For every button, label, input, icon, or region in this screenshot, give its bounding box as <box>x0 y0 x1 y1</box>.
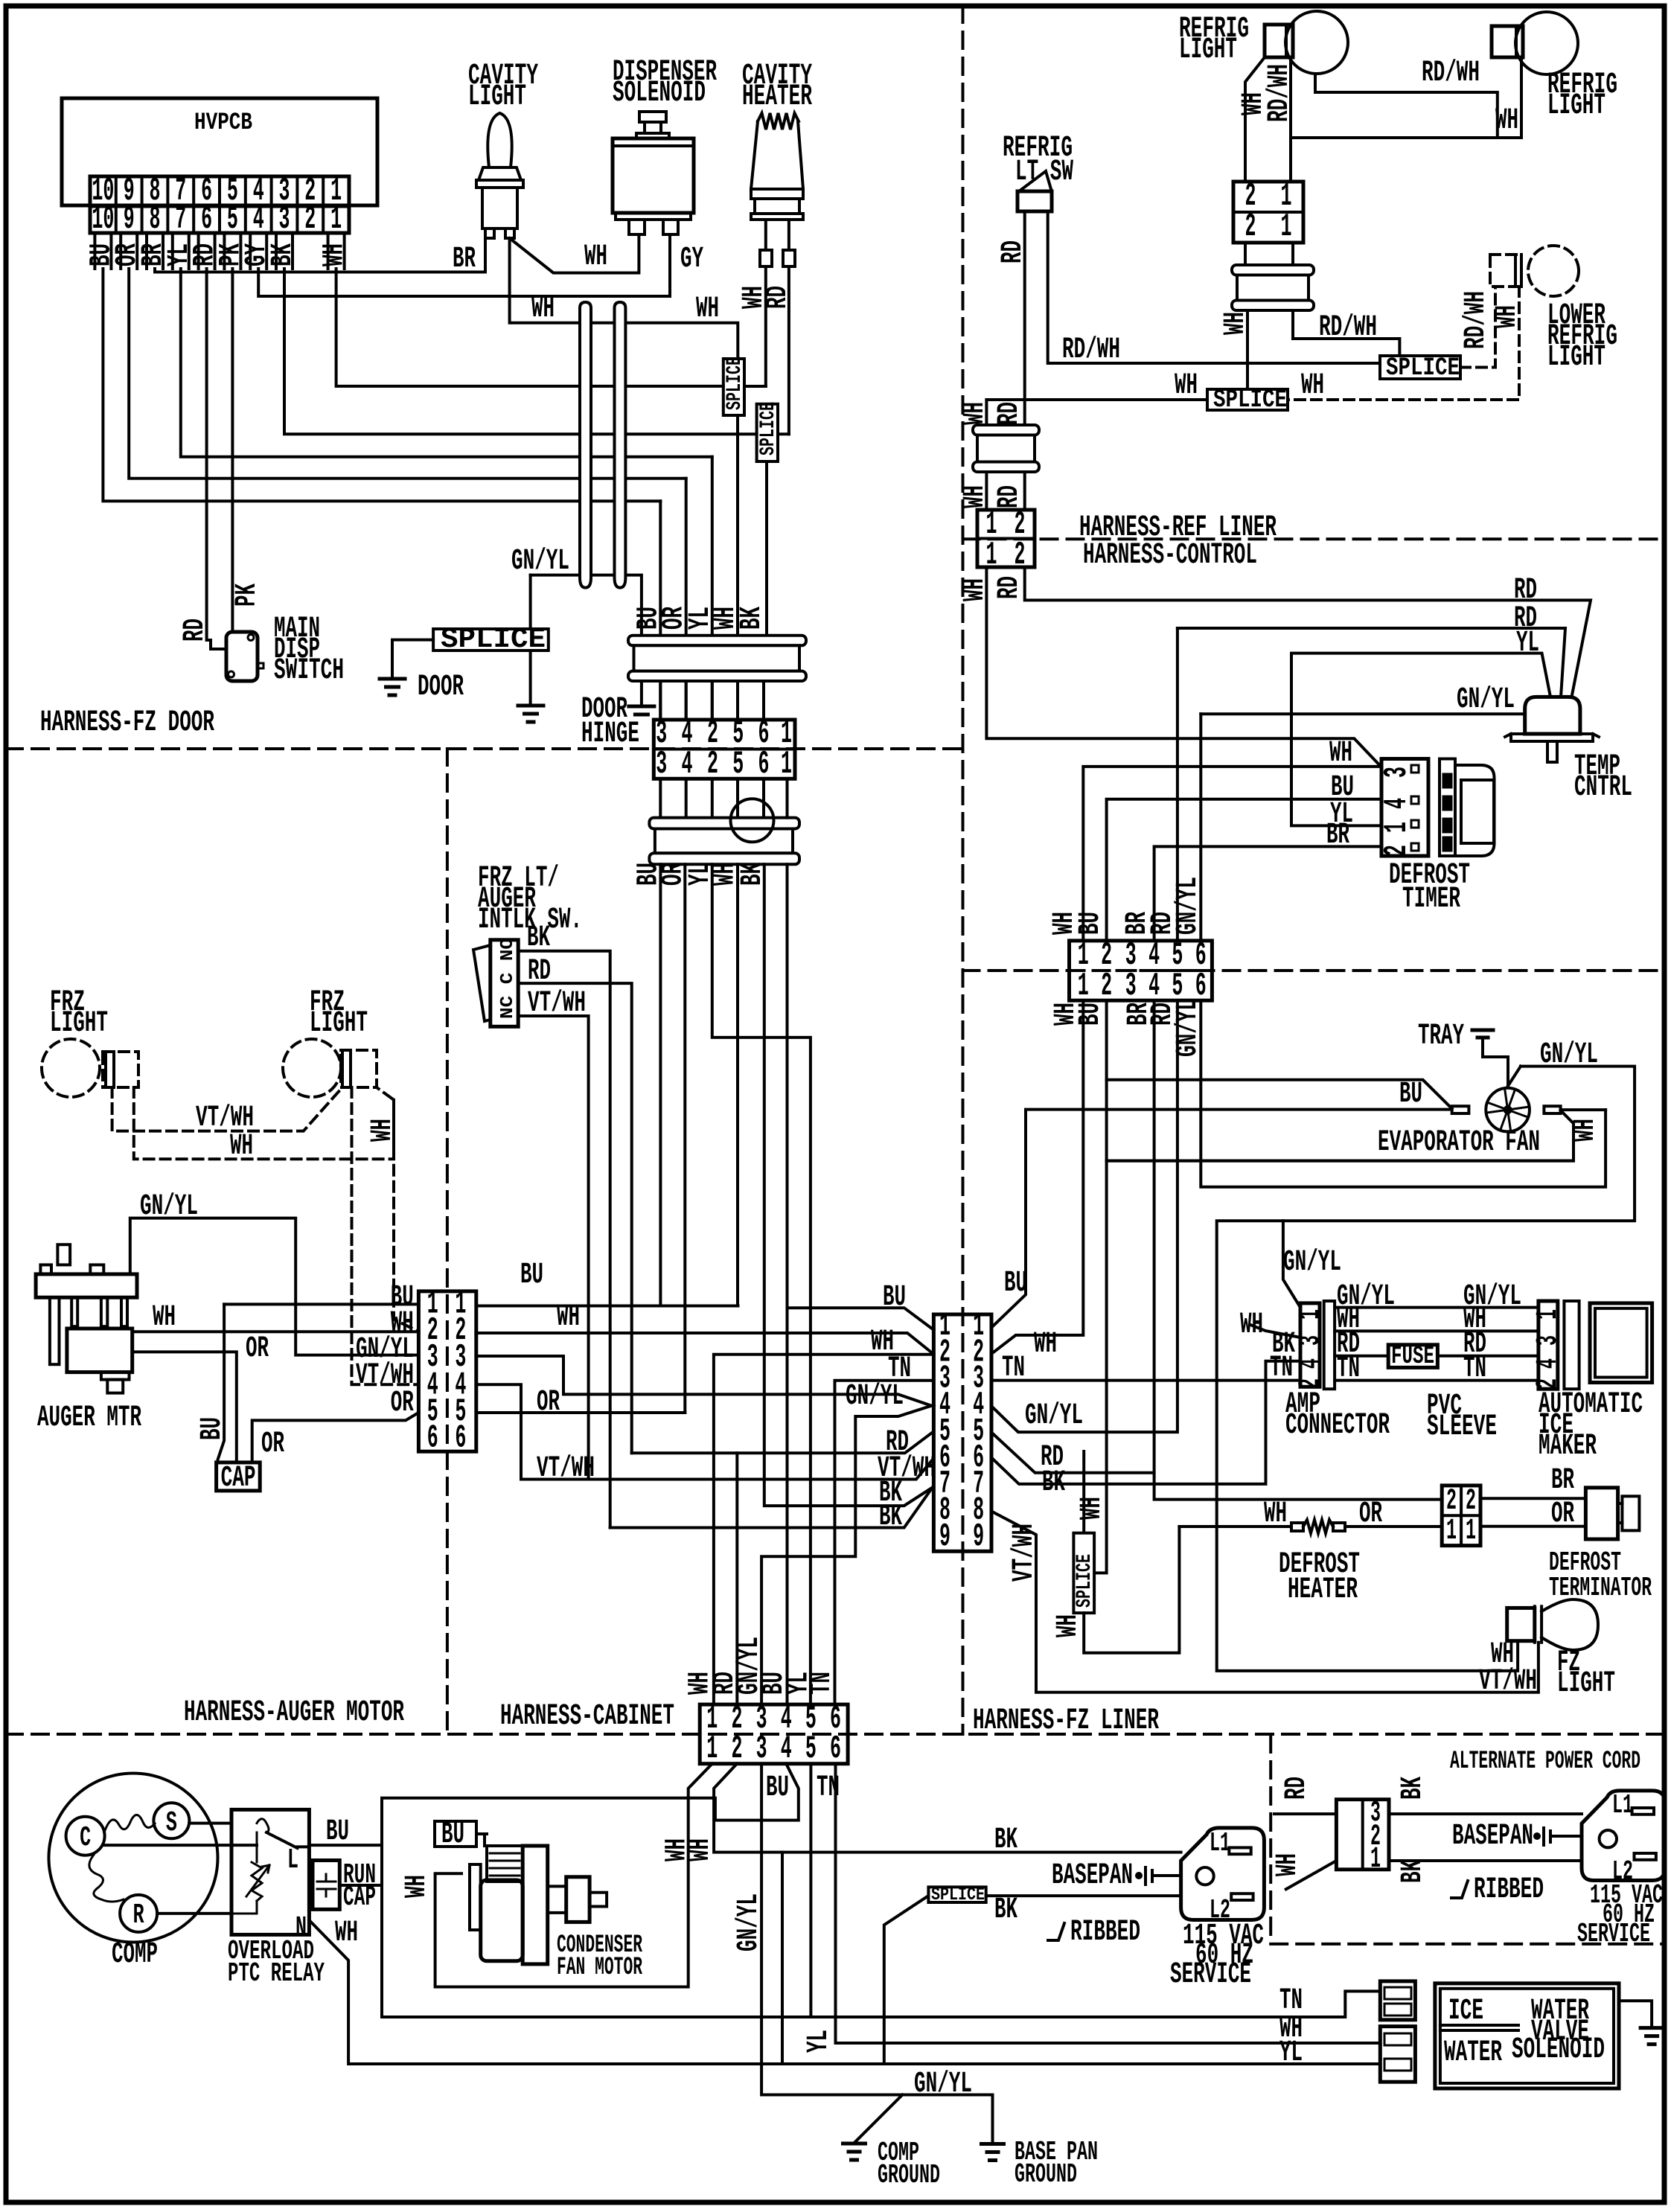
svg-text:GY: GY <box>680 243 703 276</box>
wire splice bottom to heater line <box>1084 1527 1179 1653</box>
svg-text:WH: WH <box>319 243 352 266</box>
defrost timer connector <box>1381 759 1428 857</box>
svg-text:HEATER: HEATER <box>1288 1573 1358 1607</box>
svg-text:BK: BK <box>879 1500 902 1534</box>
svg-text:4: 4 <box>1532 1358 1565 1369</box>
HVPCB connector 10-pin double row <box>90 176 349 233</box>
svg-text:YL: YL <box>802 2030 836 2053</box>
wire BR 2x2 to terminator <box>1480 1497 1585 1500</box>
svg-text:SOLENOID: SOLENOID <box>613 77 706 110</box>
wire GN/YL temp cntrl to control pin6 <box>1201 712 1524 715</box>
svg-text:BU: BU <box>1074 912 1108 935</box>
svg-text:VT/WH: VT/WH <box>528 987 586 1020</box>
frz light 1 dashed bulb <box>42 1039 100 1097</box>
amp connector strips <box>1300 1303 1320 1387</box>
wire WH control pin1 to defrost timer pin3 <box>1083 767 1380 941</box>
wire GN/YL auger to connector pin3 <box>130 1218 419 1355</box>
svg-text:3: 3 <box>279 201 290 238</box>
svg-text:BK: BK <box>994 1893 1017 1927</box>
wire 9pin right pin2 WH to control pin1 <box>991 1000 1083 1354</box>
wire control pin2 branch WH to fan right <box>1107 1160 1573 1163</box>
dashed wire WH frz lights <box>134 1087 394 1159</box>
wire heater WH into splice1 <box>744 385 766 388</box>
interlock switch body <box>491 940 518 1027</box>
svg-text:ICE: ICE <box>1448 1995 1483 2028</box>
ribbed label left <box>1048 1923 1064 1940</box>
circle junction marker on lower grommet <box>731 799 774 842</box>
wire control pin4 BR down to defrost 2x2 <box>1154 1000 1442 1499</box>
svg-text:FAN MOTOR: FAN MOTOR <box>557 1954 642 1982</box>
svg-text:LIGHT: LIGHT <box>1557 1667 1615 1701</box>
wire refrig1 RD/WH down to 2-1 connector <box>1289 57 1292 182</box>
svg-text:BU: BU <box>1399 1078 1422 1111</box>
svg-text:2: 2 <box>1294 1378 1328 1389</box>
svg-text:9: 9 <box>939 1518 950 1556</box>
wire GN/YL door loop <box>531 575 642 706</box>
wire right splice dashed up to lower refrig light <box>1460 287 1495 368</box>
svg-text:WH: WH <box>366 1119 400 1142</box>
svg-text:MAKER: MAKER <box>1539 1430 1597 1463</box>
svg-text:GN/YL: GN/YL <box>914 2068 972 2101</box>
comp coil C-S <box>104 1815 155 1832</box>
svg-text:RD/WH: RD/WH <box>1319 311 1377 345</box>
wire BU auger connector pin1 <box>224 1302 418 1305</box>
svg-text:9: 9 <box>124 201 135 238</box>
svg-text:WH: WH <box>1052 1614 1085 1637</box>
svg-text:WH: WH <box>959 485 992 508</box>
section dashed divider vertical main <box>962 6 965 1734</box>
condenser fan motor symbol <box>470 1864 481 1930</box>
wire cabinet pin3 GN/YL to grounds <box>761 1764 992 2144</box>
svg-text:OR: OR <box>261 1428 284 1461</box>
dashed wire VT/WH frz lights <box>112 1087 342 1131</box>
comp coil C-R <box>89 1855 124 1902</box>
wire bundle WH door to auger pin1 corner <box>736 864 739 1305</box>
wire 9pin right pin5 RD <box>991 1433 1154 1473</box>
refrig 2-1 connector <box>1233 182 1303 243</box>
svg-text:VT/WH: VT/WH <box>1008 1524 1041 1582</box>
svg-text:OR: OR <box>537 1386 560 1419</box>
ice maker connector strips <box>1539 1301 1558 1389</box>
svg-text:WH: WH <box>531 293 555 326</box>
svg-text:RIBBED: RIBBED <box>1474 1873 1544 1907</box>
svg-text:GN/YL: GN/YL <box>1283 1246 1341 1279</box>
wire GY pin4 to dispenser solenoid <box>258 234 670 296</box>
115vac plug right <box>1582 1791 1665 1881</box>
wire cabinet pin2 WH to 115vac plug L1 <box>714 1764 1181 1853</box>
splice2 bottom wire to door conn pin6 <box>765 461 768 636</box>
ribbed label right <box>1451 1881 1468 1898</box>
cavity heater connector <box>751 189 803 199</box>
svg-text:PK: PK <box>231 584 264 607</box>
svg-text:YL: YL <box>1279 2036 1303 2070</box>
svg-text:WH: WH <box>1240 1308 1263 1342</box>
wire C to relay switch <box>105 1844 257 1847</box>
svg-text:6: 6 <box>455 1420 466 1457</box>
fuse box <box>1388 1345 1437 1368</box>
wire RD from switch down <box>1023 211 1026 425</box>
svg-text:LIGHT: LIGHT <box>1547 341 1605 374</box>
dispenser solenoid symbol <box>639 112 666 122</box>
svg-text:6: 6 <box>830 1730 841 1768</box>
auger motor symbol <box>57 1244 70 1265</box>
wire auger pin5 OR line <box>476 1411 686 1414</box>
run cap <box>313 1861 339 1910</box>
section dashed divider bottom <box>6 1733 1664 1736</box>
svg-text:9: 9 <box>973 1518 984 1556</box>
defrost terminator symbol <box>1585 1488 1617 1539</box>
svg-text:PTC RELAY: PTC RELAY <box>228 1958 325 1989</box>
wire bundle OR door to auger pin5 line <box>683 864 686 1413</box>
wire splice to plug L2 <box>986 1894 1181 1897</box>
wire RD branch down to cabinet pin2 <box>735 1453 738 1704</box>
ice water valve solenoid box <box>1435 1984 1619 2088</box>
wire WH below grommet to splice <box>1246 310 1249 389</box>
svg-text:RD: RD <box>528 955 551 988</box>
svg-text:WH: WH <box>959 402 992 425</box>
control connector 6-pin <box>1070 941 1212 1000</box>
switch wire BK <box>518 951 610 1528</box>
wire WH pin1 to splice1 <box>336 269 723 386</box>
wire WH up from grommet to left splice <box>985 400 988 425</box>
svg-text:SWITCH: SWITCH <box>274 654 344 688</box>
svg-text:L1: L1 <box>1612 1790 1633 1821</box>
svg-text:1: 1 <box>1532 1309 1565 1320</box>
wire WH line cabinet pin1 to 9pin pin2 <box>714 1355 933 1704</box>
wire BU auger line to cap <box>218 1304 224 1459</box>
svg-text:1: 1 <box>1370 1843 1381 1876</box>
svg-text:GN/YL: GN/YL <box>511 545 569 578</box>
wire auger pin3 GN/YL to 9pin pin4 arrow <box>476 1356 932 1704</box>
wire RD control pin5 up <box>1176 628 1179 941</box>
svg-text:HARNESS-CONTROL: HARNESS-CONTROL <box>1083 539 1257 572</box>
wire branch WH vertical near cabinet <box>781 1853 784 2064</box>
wire cabinet pin5 YL to water valve <box>809 1764 812 2017</box>
svg-text:TN: TN <box>1002 1352 1025 1385</box>
svg-text:YL: YL <box>1516 627 1539 660</box>
svg-text:RD/WH: RD/WH <box>1460 291 1493 349</box>
svg-text:RD: RD <box>886 1426 909 1460</box>
9-pin liner connector <box>933 1314 991 1551</box>
wire S to relay <box>189 1822 231 1825</box>
svg-text:LIGHT: LIGHT <box>310 1007 368 1041</box>
HVPCB wire stubs with color labels <box>95 233 111 269</box>
svg-text:HARNESS-FZ DOOR: HARNESS-FZ DOOR <box>40 706 214 740</box>
svg-text:WH: WH <box>1495 104 1518 138</box>
wire RD into apc <box>1274 1812 1336 1815</box>
wire cabinet pin6 TN to water valve WH <box>836 1764 1381 2043</box>
svg-text:3: 3 <box>1532 1335 1565 1346</box>
door hinge ground <box>629 705 654 709</box>
wire BU pin10 to door conn <box>103 269 660 501</box>
HVPCB box <box>62 98 377 205</box>
svg-text:WH: WH <box>1219 312 1253 335</box>
svg-text:BK: BK <box>735 607 769 630</box>
wire OR auger to cap <box>132 1352 237 1463</box>
wire 9pin right pin3 TN to amp connector <box>991 1379 1300 1382</box>
svg-text:3: 3 <box>756 1730 767 1768</box>
svg-text:BK: BK <box>1272 1328 1295 1361</box>
svg-text:5: 5 <box>805 1730 817 1768</box>
BU label box motor <box>435 1821 476 1847</box>
svg-text:BK: BK <box>527 921 550 955</box>
svg-text:TN: TN <box>1463 1352 1486 1386</box>
splice vertical box <box>1073 1533 1094 1613</box>
wire OR 2x2 to terminator <box>1480 1525 1585 1528</box>
svg-text:SLEEVE: SLEEVE <box>1427 1410 1497 1444</box>
svg-text:WH: WH <box>1569 1119 1603 1142</box>
wire switch right to right splice RD/WH <box>1048 211 1380 363</box>
svg-text:2: 2 <box>1245 208 1256 246</box>
svg-text:BU: BU <box>520 1259 543 1292</box>
wire BK apc to right plug bottom <box>1389 1859 1582 1862</box>
wire OR pin9 to door conn <box>129 269 686 479</box>
svg-text:SPLICE: SPLICE <box>931 1885 985 1905</box>
frz light 2 dashed bulb <box>283 1039 341 1097</box>
wire bundle BU door to auger line <box>659 864 662 1305</box>
svg-text:BR: BR <box>1326 819 1349 852</box>
wire refrig1 WH down to 2-1 connector <box>1245 57 1265 182</box>
refrig light 1 bulb <box>1265 25 1293 57</box>
svg-text:4: 4 <box>1294 1358 1328 1369</box>
svg-text:LIGHT: LIGHT <box>468 80 526 114</box>
svg-text:BK: BK <box>1396 1777 1430 1800</box>
svg-text:6: 6 <box>427 1420 438 1457</box>
svg-text:WH: WH <box>1264 1497 1287 1531</box>
svg-text:WH: WH <box>584 240 607 274</box>
svg-text:EVAPORATOR FAN: EVAPORATOR FAN <box>1378 1126 1540 1160</box>
wire relay output to water valve TN <box>382 1845 1380 2018</box>
svg-text:8: 8 <box>150 201 161 238</box>
svg-text:SPLICE: SPLICE <box>441 624 546 656</box>
wire RD/WH below grommet to right splice <box>1293 310 1399 356</box>
svg-text:WATER: WATER <box>1444 2036 1502 2070</box>
wire RD2 temp cntrl to control pin5 <box>1178 628 1565 697</box>
automatic ice maker box <box>1590 1303 1652 1383</box>
svg-text:BK: BK <box>1042 1466 1065 1500</box>
svg-text:NC C NO: NC C NO <box>498 938 518 1019</box>
wires below 2-1 connector <box>1244 243 1247 265</box>
svg-text:HARNESS-FZ LINER: HARNESS-FZ LINER <box>973 1704 1159 1738</box>
svg-text:SPLICE: SPLICE <box>723 357 747 410</box>
svg-text:BU: BU <box>883 1281 906 1314</box>
svg-text:4: 4 <box>253 201 264 238</box>
wire GN/YL left down through splice to ground <box>529 575 532 705</box>
svg-text:SPLICE: SPLICE <box>1213 386 1287 415</box>
wire relay WH to splice and valve YL <box>311 1922 1381 2064</box>
wire auger pin4 VT/WH to 9pin pin6 <box>476 1384 933 1479</box>
wire WH into apc <box>1286 1861 1337 1889</box>
svg-text:OR: OR <box>391 1387 414 1420</box>
svg-text:WH: WH <box>400 1875 434 1898</box>
svg-text:SPLICE: SPLICE <box>1073 1554 1096 1608</box>
wire 9pin right pin1 BU to evap fan <box>991 1110 1449 1328</box>
evaporator fan symbol <box>1486 1088 1530 1132</box>
svg-text:OR: OR <box>1359 1497 1382 1531</box>
section dashed divider vertical auger/cabinet <box>446 749 449 1734</box>
wire control pin6 GN/YL to fan right <box>1201 1000 1605 1187</box>
alternate power cord dashed box <box>1271 1736 1664 1944</box>
switch wire RD <box>518 983 632 1453</box>
auger interlock connector 6-pin double column <box>418 1291 476 1451</box>
refrig grommet <box>1232 265 1314 275</box>
apc connector 3-2-1 <box>1336 1800 1389 1870</box>
svg-text:6: 6 <box>201 201 212 238</box>
svg-text:BU: BU <box>766 1771 789 1805</box>
svg-text:BU: BU <box>1074 1003 1108 1026</box>
wire TN cabinet pin6 to 9pin pin3 <box>835 1381 933 1704</box>
wire control pin2 branch BU to fan <box>1107 1080 1452 1109</box>
splice2 RD vertical box <box>757 404 778 461</box>
cabinet connector 6-pin <box>700 1704 848 1764</box>
svg-text:VT/WH: VT/WH <box>537 1452 595 1486</box>
svg-text:BR: BR <box>1551 1464 1574 1497</box>
svg-text:LIGHT: LIGHT <box>50 1007 108 1041</box>
defrost timer body <box>1440 759 1455 857</box>
water valve ground <box>1619 2001 1652 2027</box>
svg-text:TERMINATOR: TERMINATOR <box>1549 1573 1652 1603</box>
svg-text:VT/WH: VT/WH <box>1479 1665 1537 1698</box>
svg-text:SOLENOID: SOLENOID <box>1512 2033 1605 2067</box>
wire branch to 9pin pin1 BU <box>787 1308 934 1330</box>
compressor COMP symbol <box>49 1774 218 1943</box>
cavity light bulb symbol <box>488 113 511 167</box>
splice1 WH vertical box <box>723 359 744 415</box>
svg-text:RD/WH: RD/WH <box>1263 64 1297 122</box>
cavity light pins <box>485 228 494 238</box>
svg-text:GROUND: GROUND <box>878 2160 940 2190</box>
svg-text:RD: RD <box>179 618 212 642</box>
svg-text:RD/WH: RD/WH <box>1062 333 1120 367</box>
wire PK pin5 to main disp switch <box>231 269 234 632</box>
section dashed divider control/fz-liner <box>963 969 1665 972</box>
svg-text:L1: L1 <box>1210 1828 1230 1858</box>
wire refrig1 bulb to refrig2 RD/WH <box>1315 74 1498 138</box>
svg-text:BASEPAN: BASEPAN <box>1052 1859 1133 1893</box>
wire WH splice chain to heater <box>1082 1451 1085 1533</box>
defrost 2x2 connector <box>1442 1486 1480 1546</box>
temp cntrl symbol <box>1525 697 1580 734</box>
wire door splice left to ground <box>392 640 433 678</box>
svg-text:TRAY: TRAY <box>1418 1020 1464 1053</box>
wire R to relay <box>157 1912 231 1915</box>
labels BU OR YL WH BK above door connector <box>659 681 662 720</box>
svg-text:BU: BU <box>441 1818 464 1852</box>
svg-text:RIBBED: RIBBED <box>1070 1916 1140 1949</box>
svg-text:RD: RD <box>997 240 1030 263</box>
fz light symbol <box>1507 1608 1535 1640</box>
svg-text:LIGHT: LIGHT <box>1179 33 1237 67</box>
svg-text:COMP: COMP <box>112 1938 158 1972</box>
wire BR defrost timer pin2 to control pin4 <box>1154 846 1380 941</box>
svg-text:BU: BU <box>1331 771 1354 805</box>
svg-text:WH: WH <box>1175 369 1198 403</box>
relay internal switch <box>257 1819 269 1832</box>
wire RD line to 9pin pin5 <box>632 1433 933 1454</box>
door splice box <box>433 629 549 651</box>
svg-text:CAP: CAP <box>221 1462 256 1495</box>
svg-text:BR: BR <box>453 243 476 276</box>
svg-text:3: 3 <box>1125 968 1137 1005</box>
svg-text:SERVICE: SERVICE <box>1170 1958 1251 1992</box>
svg-text:C: C <box>80 1822 91 1854</box>
wire cavity light right pin down to WH splice line <box>510 238 738 359</box>
svg-text:CONNECTOR: CONNECTOR <box>1285 1409 1390 1442</box>
svg-text:2: 2 <box>1466 1485 1476 1518</box>
wire bundle BK door to 9pin pin7 <box>764 864 933 1506</box>
svg-text:1: 1 <box>1466 1515 1476 1548</box>
switch wire VT/WH <box>518 1016 588 1480</box>
svg-text:CNTRL: CNTRL <box>1574 771 1632 805</box>
cavity heater wires WH RD with sleeves <box>764 220 767 250</box>
svg-text:OR: OR <box>246 1332 269 1366</box>
base pan ground <box>982 2142 1004 2146</box>
wire auger pin1 line to WH column <box>476 1305 738 1308</box>
splice box bottom <box>928 1887 985 1902</box>
dashed wire WH frz light2 to auger pin2 <box>394 1100 418 1332</box>
splice1 bottom wire to door conn pin5 <box>736 415 739 636</box>
svg-text:2: 2 <box>304 201 316 238</box>
relay internal ptc resistor <box>231 1832 257 1914</box>
wire RD pin6 to main disp switch <box>207 269 226 649</box>
wires into door connector from above <box>659 501 662 720</box>
svg-text:1: 1 <box>1446 1515 1457 1548</box>
wire fan right terminal WH return <box>1107 1110 1606 1161</box>
svg-text:BASEPAN: BASEPAN <box>1452 1820 1533 1853</box>
section dashed divider ref-liner/control <box>963 537 1665 540</box>
wire WH to defrost timer pin3 <box>986 567 1380 766</box>
svg-text:BK: BK <box>266 243 300 266</box>
wire control pin2 WH down to splice <box>1094 1000 1107 1573</box>
wire refrig2 socket WH down <box>1293 57 1521 138</box>
svg-text:SERVICE: SERVICE <box>1577 1919 1650 1949</box>
svg-text:GROUND: GROUND <box>1015 2159 1077 2190</box>
wire 9pin right pin4 GN/YL <box>991 1000 1178 1432</box>
svg-text:TIMER: TIMER <box>1402 883 1460 916</box>
svg-text:TN: TN <box>888 1352 911 1386</box>
svg-text:HARNESS-CABINET: HARNESS-CABINET <box>500 1700 674 1733</box>
refrig lt sw symbol <box>1017 191 1052 211</box>
door channel tubes <box>580 302 591 588</box>
wire BK line to 9pin pin7 <box>610 1488 933 1528</box>
door hinge connector 6-pin <box>654 720 795 779</box>
wires below door connector <box>659 779 662 864</box>
svg-text:WH: WH <box>696 293 719 326</box>
svg-text:WH: WH <box>153 1301 176 1334</box>
wire WH auger to connector pin2 <box>132 1330 419 1333</box>
svg-text:WH: WH <box>1271 1853 1305 1876</box>
wire heater RD into splice2 <box>778 432 789 435</box>
overload ptc relay box <box>231 1809 309 1934</box>
svg-text:1: 1 <box>1294 1309 1328 1320</box>
defrost heater element <box>1179 1525 1291 1528</box>
door grommet lower <box>649 818 799 829</box>
svg-text:7: 7 <box>175 201 186 238</box>
wire bundle YL door with jog <box>712 864 811 1704</box>
wire GN/YL control pin6 up <box>1199 714 1202 941</box>
wire YL temp cntrl to defrost timer pin1 <box>1291 653 1550 826</box>
wire BK switch join <box>610 1527 714 1529</box>
svg-text:HINGE: HINGE <box>581 717 639 751</box>
svg-text:HVPCB: HVPCB <box>194 109 252 136</box>
svg-text:GN/YL: GN/YL <box>1457 683 1515 717</box>
svg-text:1: 1 <box>330 201 342 238</box>
wire BR pin8 to cavity light <box>155 238 485 272</box>
svg-text:R: R <box>133 1899 144 1931</box>
svg-text:BK: BK <box>994 1823 1017 1857</box>
wire branch up to splice <box>884 1896 929 2064</box>
dispenser solenoid terminals <box>629 220 645 234</box>
